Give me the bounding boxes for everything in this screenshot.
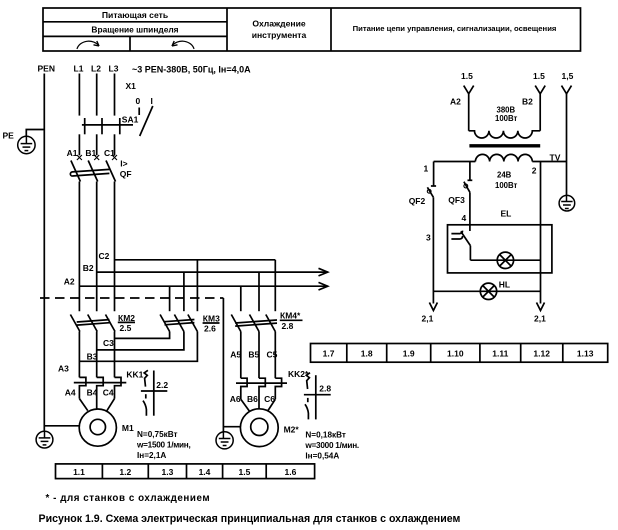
svg-text:A5: A5 xyxy=(230,350,241,360)
motor M1 symbol xyxy=(79,409,116,446)
svg-text:2.8: 2.8 xyxy=(319,384,331,394)
svg-text:2,1: 2,1 xyxy=(534,314,546,324)
svg-text:4: 4 xyxy=(462,213,467,223)
wire HL line xyxy=(433,290,540,292)
svg-text:A3: A3 xyxy=(58,364,69,374)
svg-text:0: 0 xyxy=(136,96,141,106)
wire A2 horizontal tap with arrow xyxy=(79,282,327,290)
contactor KM2 linkage bar xyxy=(77,320,110,326)
wire 3 vertical xyxy=(432,197,434,303)
svg-text:QF: QF xyxy=(120,169,132,179)
machine boundary dashed line xyxy=(40,297,223,299)
svg-text:1,5: 1,5 xyxy=(562,71,574,81)
svg-text:B2: B2 xyxy=(522,97,533,107)
svg-text:Питание цепи упрaвления, сигна: Питание цепи упрaвления, сигнализации, о… xyxy=(353,24,557,33)
transformer TV primary winding xyxy=(469,131,541,138)
contactor KM3 pole blades xyxy=(160,315,197,332)
svg-text:1.10: 1.10 xyxy=(447,348,464,358)
breaker QF3 contact xyxy=(464,180,472,192)
wire KM3 output row3 to phase A xyxy=(79,332,197,362)
svg-text:1.5: 1.5 xyxy=(238,467,250,477)
svg-text:инструмента: инструмента xyxy=(252,30,307,40)
wire from net 1.5 to TV primary A2 with entry arrow xyxy=(464,86,474,131)
svg-text:1.8: 1.8 xyxy=(361,348,373,358)
svg-text:КМ3: КМ3 xyxy=(203,314,220,324)
wire secondary line right xyxy=(532,161,566,163)
thermal relay KK2 heater jogs xyxy=(241,378,282,409)
wire KM4 pole1 stub xyxy=(240,286,242,311)
wire 4 vertical to EL box xyxy=(469,192,471,231)
wire KM3 pole3 stub xyxy=(196,260,198,311)
wire KM4 outputs down xyxy=(241,332,275,379)
wire B phase vertical xyxy=(96,182,98,312)
svg-text:B6: B6 xyxy=(247,394,258,404)
thermal relay KK2 contact symbol with ref 2.8 xyxy=(304,373,331,420)
ground TV secondary symbol xyxy=(559,195,575,211)
svg-text:М1: М1 xyxy=(122,423,134,433)
svg-text:2.2: 2.2 xyxy=(156,380,168,390)
svg-text:Рисунок 1.9. Схема электрическ: Рисунок 1.9. Схема электрическая принцип… xyxy=(39,513,461,525)
wire KM3 output row1 to phase C xyxy=(115,332,170,339)
wire L1 lower to QF xyxy=(78,134,80,155)
transformer TV core xyxy=(469,144,540,147)
svg-text:PEN: PEN xyxy=(38,64,55,74)
svg-text:24В: 24В xyxy=(497,171,512,180)
svg-text:1.3: 1.3 xyxy=(161,467,173,477)
svg-text:B3: B3 xyxy=(87,351,98,361)
wire A4 diagonal into motor xyxy=(79,399,87,411)
arrow to line 2.1 left xyxy=(429,303,437,311)
switch SA1 handle indicator xyxy=(139,106,153,136)
wire M2 protective earth vertical xyxy=(222,298,224,432)
svg-text:1.6: 1.6 xyxy=(284,467,296,477)
svg-text:КМ2: КМ2 xyxy=(118,313,135,323)
wire KM3 output row2 to phase B xyxy=(97,332,184,350)
wire L2 lower to QF xyxy=(96,134,98,155)
thermal relay KK1 contact symbol with ref 2.2 xyxy=(141,370,168,415)
svg-text:1.4: 1.4 xyxy=(199,467,211,477)
wire C phase vertical xyxy=(114,182,116,312)
svg-text:A4: A4 xyxy=(65,387,76,397)
svg-text:B5: B5 xyxy=(248,350,259,360)
svg-text:Питающая сеть: Питающая сеть xyxy=(102,10,168,20)
wire PE branch xyxy=(26,130,44,137)
wire EL lamp line xyxy=(470,259,540,261)
svg-text:PE: PE xyxy=(3,131,15,141)
svg-text:w=3000 1/мин.: w=3000 1/мин. xyxy=(304,441,359,450)
wire A phase vertical xyxy=(78,182,80,312)
wire KM4 pole2 stub xyxy=(258,272,260,311)
wire QF3 tap xyxy=(469,162,471,181)
wire B2 horizontal tap with arrow xyxy=(97,268,328,276)
svg-text:N=0,18кВт: N=0,18кВт xyxy=(305,430,346,439)
svg-text:3: 3 xyxy=(426,233,431,243)
transformer TV secondary winding xyxy=(475,154,532,161)
svg-text:B1: B1 xyxy=(85,148,96,158)
svg-text:~3 PEN-380В, 50Гц, Iн=4,0А: ~3 PEN-380В, 50Гц, Iн=4,0А xyxy=(132,65,251,75)
svg-text:2.5: 2.5 xyxy=(120,323,132,333)
svg-text:1.7: 1.7 xyxy=(323,348,335,358)
svg-text:Вращение шпинделя: Вращение шпинделя xyxy=(91,25,178,35)
enclosure box for EL lamp xyxy=(448,225,552,273)
function table: outer frame xyxy=(43,8,581,51)
svg-text:1.11: 1.11 xyxy=(492,348,508,358)
contactor KM2 pole blades xyxy=(70,315,115,332)
breaker QF pole contact crosses xyxy=(77,155,117,160)
svg-text:B4: B4 xyxy=(87,387,98,397)
rotation arrow CW xyxy=(77,41,99,49)
svg-text:Iн=0,54А: Iн=0,54А xyxy=(305,452,339,461)
arrow to line 2.1 right xyxy=(537,303,545,311)
svg-text:100Вт: 100Вт xyxy=(495,181,518,190)
wire secondary line left xyxy=(434,161,476,163)
contactor KM2 label with line number 2.5 xyxy=(118,313,135,333)
wire L3 upper xyxy=(114,74,116,116)
svg-text:L1: L1 xyxy=(74,64,84,74)
ground M1 symbol xyxy=(36,431,53,448)
wire KM3 pole2 stub xyxy=(183,272,185,311)
wire A6 diagonal into motor xyxy=(241,399,250,411)
svg-text:N=0,75кВт: N=0,75кВт xyxy=(137,430,178,439)
svg-text:М2*: М2* xyxy=(284,425,300,435)
svg-text:Iн=2,1А: Iн=2,1А xyxy=(137,451,166,460)
line-number table 1.7-1.13 xyxy=(311,344,608,363)
wire terminal 1 drop xyxy=(433,162,435,187)
svg-text:C4: C4 xyxy=(103,387,114,397)
thermal relay KK1 linkage line xyxy=(74,382,127,384)
svg-text:КМ4*: КМ4* xyxy=(280,311,301,321)
svg-text:Охлаждение: Охлаждение xyxy=(252,18,306,28)
line-number table 1.1-1.6 xyxy=(56,464,315,479)
contactor KM4 pole blades xyxy=(231,315,275,332)
svg-text:EL: EL xyxy=(501,209,512,219)
svg-text:w=1500 1/мин,: w=1500 1/мин, xyxy=(136,441,191,450)
svg-text:A1: A1 xyxy=(67,148,78,158)
svg-text:2,1: 2,1 xyxy=(422,314,434,324)
svg-text:KK2*: KK2* xyxy=(288,369,309,379)
svg-text:KK1: KK1 xyxy=(126,370,143,380)
rotation arrow CCW xyxy=(172,41,194,49)
wire C6 diagonal into motor xyxy=(268,399,276,411)
svg-text:1.5: 1.5 xyxy=(533,71,545,81)
svg-text:A6: A6 xyxy=(230,394,241,404)
wire L2 upper xyxy=(96,74,98,116)
svg-text:2.8: 2.8 xyxy=(282,321,294,331)
svg-text:L2: L2 xyxy=(91,64,101,74)
svg-text:1.9: 1.9 xyxy=(403,348,415,358)
svg-text:1.1: 1.1 xyxy=(73,467,85,477)
wire C4 diagonal into motor xyxy=(107,399,115,411)
transformer TV secondary rating 24В 100Вт xyxy=(495,171,518,191)
svg-text:A2: A2 xyxy=(64,277,75,287)
wire M2 earth to frame xyxy=(223,426,240,428)
svg-text:2.6: 2.6 xyxy=(204,324,216,334)
svg-text:C2: C2 xyxy=(99,251,110,261)
wire from net 1.5 to TV primary B2 with entry arrow xyxy=(535,86,545,131)
svg-text:C3: C3 xyxy=(103,338,114,348)
svg-text:I: I xyxy=(151,96,153,106)
wire KM3 pole1 stub xyxy=(169,286,171,311)
motor M2 data text xyxy=(304,430,359,460)
svg-text:X1: X1 xyxy=(126,81,137,91)
wire L3 lower to QF xyxy=(114,134,116,155)
svg-text:B2: B2 xyxy=(83,263,94,273)
breaker QF pole blades xyxy=(71,161,116,182)
svg-text:1.13: 1.13 xyxy=(577,348,594,358)
wire KM4 pole3 stub xyxy=(274,260,276,311)
wire PEN vertical xyxy=(43,74,45,432)
wire KM2 outputs down xyxy=(79,332,114,378)
thermal relay KK1 heater jogs xyxy=(79,377,121,409)
svg-text:A2: A2 xyxy=(450,97,461,107)
svg-text:I>: I> xyxy=(120,159,127,169)
svg-text:QF2: QF2 xyxy=(409,196,426,206)
wire 2 vertical through EL box xyxy=(540,162,542,304)
svg-text:QF3: QF3 xyxy=(448,195,465,205)
lamp EL symbol xyxy=(497,252,513,268)
contactor KM4 label with line number 2.8 xyxy=(280,311,303,332)
svg-text:HL: HL xyxy=(499,279,510,289)
svg-text:1.2: 1.2 xyxy=(119,467,131,477)
svg-text:* - для станков с охлаждением: * - для станков с охлаждением xyxy=(46,493,211,504)
motor M1 data text xyxy=(136,430,191,460)
svg-text:SA1: SA1 xyxy=(122,114,139,124)
breaker QF2 contact xyxy=(427,186,436,197)
switch in EL box xyxy=(451,231,470,261)
svg-text:1: 1 xyxy=(424,164,429,174)
motor M2 symbol xyxy=(240,409,278,447)
wire from net 1.5 to earth with entry arrow xyxy=(562,86,572,196)
wire PEN to M1 frame xyxy=(44,425,79,427)
switch SA1 pole blades and bar xyxy=(82,118,133,134)
contactor KM3 linkage bar xyxy=(165,320,195,325)
thermal relay KK2 linkage line xyxy=(236,382,287,384)
svg-text:1.5: 1.5 xyxy=(461,71,473,81)
svg-text:1.12: 1.12 xyxy=(533,348,550,358)
wire C2 horizontal tap xyxy=(115,259,276,261)
contactor KM3 label with line number 2.6 xyxy=(203,314,220,334)
svg-text:2: 2 xyxy=(532,166,537,176)
transformer TV primary rating 380В 100Вт xyxy=(495,106,518,124)
wire L1 upper xyxy=(78,74,80,116)
ground M2 symbol xyxy=(216,432,233,449)
ground PE symbol xyxy=(18,136,35,153)
svg-text:100Вт: 100Вт xyxy=(495,114,518,123)
svg-text:L3: L3 xyxy=(109,64,119,74)
lamp HL symbol xyxy=(480,283,496,299)
breaker QF linkage bar xyxy=(70,169,109,176)
contactor KM4 linkage bar xyxy=(235,320,277,326)
